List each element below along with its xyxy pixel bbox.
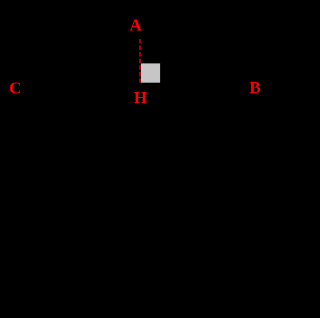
svg-text:C: C	[9, 79, 21, 98]
svg-text:A: A	[130, 15, 143, 34]
svg-text:H: H	[134, 88, 147, 107]
svg-text:B: B	[249, 78, 260, 97]
